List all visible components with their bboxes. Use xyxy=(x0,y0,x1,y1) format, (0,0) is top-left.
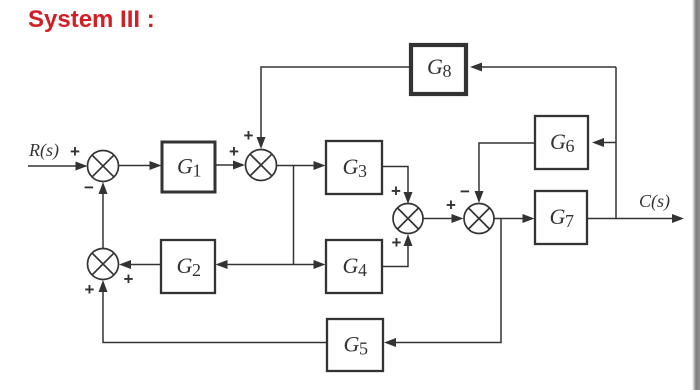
svg-text:G: G xyxy=(550,204,566,229)
wire feedback into G6 xyxy=(592,138,616,147)
wire S2 output to G3 xyxy=(277,161,326,170)
wire feedback branch from node D up xyxy=(615,67,617,219)
wire branch node E down to G5 xyxy=(384,219,501,348)
svg-text:5: 5 xyxy=(359,339,368,359)
svg-text:+: + xyxy=(446,195,456,214)
summing junction S3 xyxy=(393,204,423,234)
block G6 xyxy=(535,116,588,169)
svg-text:+: + xyxy=(229,142,239,161)
minus sign at S1 lower input xyxy=(84,178,94,197)
wire feedback into G8 xyxy=(470,63,616,72)
summing junction S1 xyxy=(88,151,119,182)
wire G6 output to summer S4 xyxy=(475,143,536,203)
svg-text:7: 7 xyxy=(565,211,574,231)
node label C(s) xyxy=(639,191,670,212)
plus sign at S2 top input xyxy=(244,126,254,145)
svg-text:+: + xyxy=(244,126,254,145)
block G8 xyxy=(411,45,466,94)
svg-text:+: + xyxy=(85,280,95,299)
wire branch from node A down xyxy=(293,166,295,265)
block G2 xyxy=(161,240,215,293)
wire G8 output to summer S2 xyxy=(257,67,412,149)
summing junction S4 xyxy=(464,204,494,234)
wire G5 output to summer S5 xyxy=(99,280,328,343)
block G3 xyxy=(326,141,382,194)
minus sign at S4 top input xyxy=(460,182,470,201)
svg-text:G: G xyxy=(177,253,193,278)
block G5 xyxy=(327,319,383,371)
wire G2 output to summer S5 xyxy=(119,260,161,269)
svg-text:2: 2 xyxy=(192,260,201,280)
right edge gray bar xyxy=(692,0,700,390)
svg-text:G: G xyxy=(343,154,359,179)
plus sign at S5 bottom input xyxy=(85,280,95,299)
wire G1 output to summer S2 xyxy=(215,161,245,170)
svg-text:+: + xyxy=(124,269,134,288)
plus sign at S2 left input xyxy=(229,142,239,161)
summing junction S5 xyxy=(88,249,119,280)
node label R(s) xyxy=(28,140,59,161)
svg-text:R(s): R(s) xyxy=(28,140,59,161)
wire S5 output up to summer S1 xyxy=(99,182,108,249)
svg-text:−: − xyxy=(84,178,94,197)
plus sign at S5 right input xyxy=(124,269,134,288)
wire S1 output to G1 xyxy=(119,161,162,170)
plus sign at S4 left input xyxy=(446,195,456,214)
svg-text:1: 1 xyxy=(193,161,202,181)
wire G3 output to summer S3 xyxy=(382,167,413,205)
plus sign at S1 input xyxy=(70,142,80,161)
wire G7 output to C(s) xyxy=(587,214,684,223)
wire node B to G4 (rightward) xyxy=(294,260,326,269)
wire node B to G2 (leftward) xyxy=(216,260,294,269)
summing junction S2 xyxy=(246,150,277,181)
block G7 xyxy=(535,191,587,244)
plus sign at S3 bottom input xyxy=(392,233,402,252)
svg-text:G: G xyxy=(177,154,193,179)
svg-text:G: G xyxy=(344,332,360,357)
wire S3 output to summer S4 xyxy=(423,214,464,223)
svg-text:+: + xyxy=(392,233,402,252)
svg-text:G: G xyxy=(343,253,359,278)
svg-text:3: 3 xyxy=(358,161,367,181)
svg-text:+: + xyxy=(70,142,80,161)
wire G4 output to summer S3 xyxy=(382,234,413,267)
title System III xyxy=(28,6,155,34)
wire R(s) input into summer S1 xyxy=(28,162,88,171)
svg-text:8: 8 xyxy=(443,61,452,81)
svg-text:G: G xyxy=(550,129,566,154)
block G4 xyxy=(326,240,382,293)
svg-text:6: 6 xyxy=(566,136,575,156)
svg-text:4: 4 xyxy=(358,260,367,280)
plus sign at S3 top input xyxy=(391,181,401,200)
svg-text:G: G xyxy=(427,54,443,79)
wire S4 output to G7 xyxy=(495,214,535,223)
svg-text:−: − xyxy=(460,182,470,201)
svg-text:+: + xyxy=(391,181,401,200)
block G1 xyxy=(162,142,215,192)
svg-text:C(s): C(s) xyxy=(639,191,670,212)
